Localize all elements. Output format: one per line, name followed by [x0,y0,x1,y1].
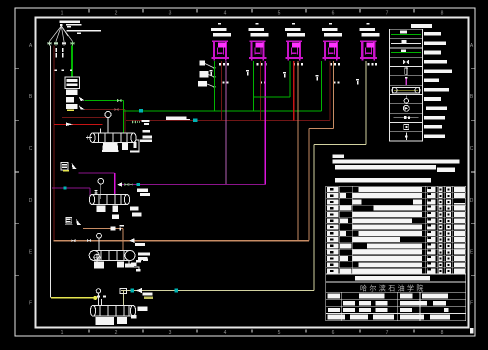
svg-text:1: 1 [61,11,64,17]
svg-text:7: 7 [386,11,389,17]
svg-text:2: 2 [115,11,118,17]
svg-text:F: F [470,301,473,307]
svg-text:7: 7 [386,330,389,336]
svg-text:哈尔滨石油学院: 哈尔滨石油学院 [360,284,426,293]
svg-text:6: 6 [332,330,335,336]
svg-text:3: 3 [169,11,172,17]
svg-text:F: F [29,301,32,307]
svg-text:8: 8 [441,11,444,17]
svg-text:4: 4 [224,330,227,336]
svg-text:C: C [29,146,33,152]
svg-text:1: 1 [61,330,64,336]
svg-text:4: 4 [224,11,227,17]
svg-text:D: D [470,198,474,204]
svg-text:3: 3 [169,330,172,336]
svg-text:C: C [470,146,474,152]
svg-text:6: 6 [332,11,335,17]
svg-text:2: 2 [115,330,118,336]
svg-text:8: 8 [441,330,444,336]
svg-text:D: D [29,198,33,204]
svg-text:5: 5 [278,330,281,336]
svg-text:5: 5 [278,11,281,17]
